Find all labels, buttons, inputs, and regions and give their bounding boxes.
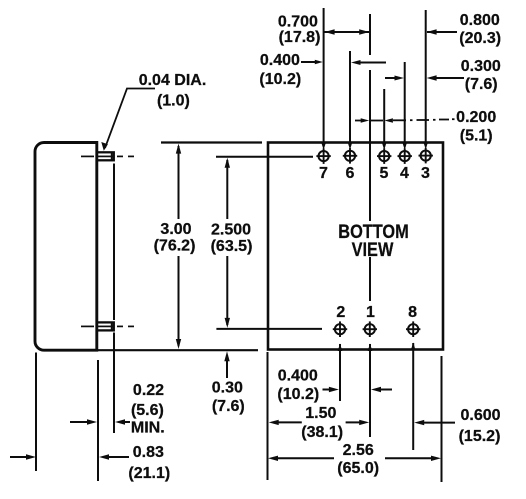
top pin centerline <box>81 155 134 157</box>
svg-text:0.22: 0.22 <box>133 382 164 399</box>
svg-text:4: 4 <box>400 165 409 182</box>
pin number 8 <box>408 304 417 321</box>
pin 4 extension line <box>402 62 407 150</box>
pin number 5 <box>380 165 389 182</box>
dimension 0.200 dash-dot <box>355 118 455 123</box>
svg-text:8: 8 <box>408 304 417 321</box>
svg-text:(10.2): (10.2) <box>259 71 301 88</box>
dimension 0.22 MIN <box>70 419 130 424</box>
label 2.500 <box>211 222 253 256</box>
label 0.800 <box>459 12 501 47</box>
pin 6 extension line <box>348 51 353 150</box>
pin 5 extension line <box>382 89 387 150</box>
svg-text:(15.2): (15.2) <box>459 428 501 445</box>
svg-text:(17.8): (17.8) <box>279 29 321 46</box>
dimension line 2.500 <box>225 158 230 328</box>
side view top pin <box>97 152 114 160</box>
box left edge extension line <box>267 352 269 480</box>
extension line pin ends <box>113 164 115 434</box>
label BOTTOM VIEW <box>338 221 408 260</box>
svg-text:0.800: 0.800 <box>460 12 500 29</box>
extension line body right edge <box>97 360 99 481</box>
pin 1 extension line <box>368 14 373 437</box>
bottom pin centerline <box>81 325 134 327</box>
label 0.04 DIA <box>139 72 207 110</box>
svg-text:(5.1): (5.1) <box>460 128 493 145</box>
svg-text:(1.0): (1.0) <box>157 93 190 110</box>
pin 1 symbol <box>363 321 377 337</box>
label 0.600 <box>459 407 501 445</box>
pin 3 symbol <box>419 148 433 164</box>
label 2.56 <box>337 442 379 477</box>
pin 7 extension line <box>321 8 326 150</box>
svg-text:0.400: 0.400 <box>278 368 318 385</box>
svg-text:MIN.: MIN. <box>131 420 165 437</box>
label 1.50 <box>301 405 343 441</box>
pin 3 extension line <box>423 10 428 150</box>
reference line top pin row <box>216 156 313 158</box>
svg-text:1: 1 <box>366 304 375 321</box>
label 0.300 <box>461 58 501 93</box>
pin number 7 <box>319 165 328 182</box>
bottom pin row reference line <box>216 328 322 330</box>
label 0.30 <box>212 380 245 416</box>
svg-text:0.600: 0.600 <box>460 407 500 424</box>
svg-text:0.300: 0.300 <box>461 58 501 75</box>
svg-text:3.00: 3.00 <box>160 221 191 238</box>
svg-text:5: 5 <box>380 165 389 182</box>
pin 2 extension line <box>338 344 343 402</box>
svg-text:(63.5): (63.5) <box>211 238 253 255</box>
dimension 0.300 <box>385 75 464 80</box>
pin 8 symbol <box>406 321 420 337</box>
pin number 1 <box>366 304 375 321</box>
dimension 0.400 top <box>301 60 386 65</box>
pin number 4 <box>400 165 409 182</box>
svg-text:(65.0): (65.0) <box>337 460 379 477</box>
svg-text:0.04 DIA.: 0.04 DIA. <box>139 72 207 89</box>
svg-text:6: 6 <box>346 165 355 182</box>
svg-text:2: 2 <box>336 304 345 321</box>
svg-text:(5.6): (5.6) <box>131 402 164 419</box>
label 0.83 <box>128 444 170 482</box>
extension line body left edge <box>35 353 37 472</box>
dimension 0.800 <box>427 29 457 34</box>
label 0.400 top <box>259 52 301 88</box>
pin number 2 <box>336 304 345 321</box>
svg-text:(20.3): (20.3) <box>459 30 501 47</box>
svg-text:3: 3 <box>421 165 430 182</box>
reference line top of body <box>161 141 262 143</box>
dimension 0.600 <box>414 420 455 425</box>
pin 4 symbol <box>398 148 412 164</box>
side view body <box>35 143 97 351</box>
pin number 6 <box>346 165 355 182</box>
dimension 1.50 <box>269 420 370 425</box>
svg-text:(10.2): (10.2) <box>277 386 319 403</box>
svg-text:2.500: 2.500 <box>211 222 251 239</box>
svg-text:(76.2): (76.2) <box>154 238 196 255</box>
pin number 3 <box>421 165 430 182</box>
svg-text:2.56: 2.56 <box>343 442 374 459</box>
pin 2 symbol <box>333 321 347 337</box>
dimension 2.56 <box>268 456 441 461</box>
svg-text:VIEW: VIEW <box>352 239 394 260</box>
pin 6 symbol <box>343 148 357 164</box>
label 0.22 MIN <box>131 382 165 437</box>
svg-text:0.200: 0.200 <box>456 109 496 126</box>
svg-text:(38.1): (38.1) <box>301 424 343 441</box>
svg-text:0.400: 0.400 <box>260 52 300 69</box>
reference line bottom of body <box>96 349 258 351</box>
svg-text:(7.6): (7.6) <box>212 398 245 415</box>
svg-text:1.50: 1.50 <box>305 405 336 422</box>
svg-text:(21.1): (21.1) <box>128 465 170 482</box>
dimension 0.83 <box>10 454 129 459</box>
bottom view box <box>268 143 443 350</box>
svg-text:0.30: 0.30 <box>212 380 243 397</box>
svg-text:(7.6): (7.6) <box>465 76 498 93</box>
pin 7 symbol <box>316 148 330 164</box>
dimension 0.30 arrow <box>224 351 229 378</box>
box right edge extension line <box>441 356 443 482</box>
label 3.00 <box>154 221 196 255</box>
pin 5 symbol <box>377 148 391 164</box>
dimension line 3.00 <box>176 144 181 349</box>
label 0.200 <box>456 109 496 145</box>
side view bottom pin <box>97 322 114 330</box>
label 0.700 <box>278 14 321 46</box>
pin 8 extension line <box>411 343 416 451</box>
dimension 0.700 <box>325 29 370 34</box>
dimension 0.400 bottom <box>323 387 393 392</box>
label 0.400 bottom <box>277 368 319 404</box>
leader line 0.04 DIA <box>101 89 155 151</box>
svg-text:7: 7 <box>319 165 328 182</box>
svg-text:0.83: 0.83 <box>133 444 164 461</box>
